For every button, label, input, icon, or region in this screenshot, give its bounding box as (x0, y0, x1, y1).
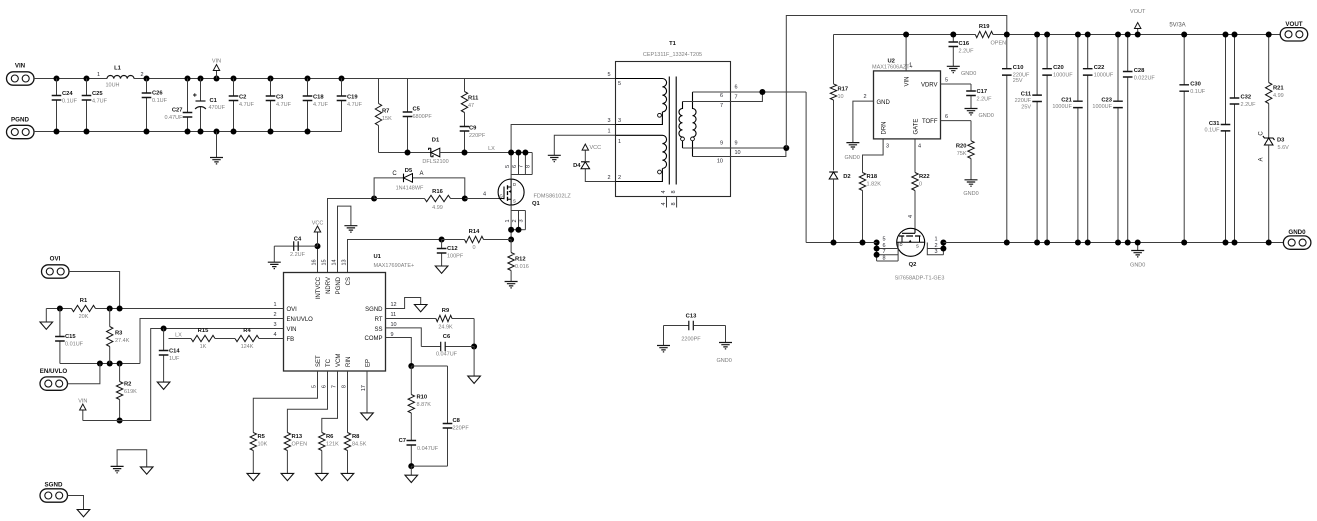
capacitor C27 (164, 79, 192, 132)
resistor R1 (72, 298, 96, 320)
svg-text:S: S (916, 244, 919, 249)
junction (214, 129, 220, 135)
svg-text:100PF: 100PF (447, 254, 464, 260)
svg-text:13: 13 (341, 259, 347, 265)
transistor Q2 (895, 228, 945, 281)
svg-text:7: 7 (883, 249, 886, 255)
svg-text:C20: C20 (1053, 65, 1064, 71)
svg-text:VCC: VCC (312, 221, 324, 227)
svg-text:D: D (513, 182, 516, 187)
svg-text:15: 15 (321, 259, 327, 265)
svg-text:C25: C25 (92, 91, 103, 97)
svg-text:5: 5 (311, 385, 317, 388)
svg-text:6: 6 (720, 93, 723, 99)
svg-text:84.5K: 84.5K (352, 442, 367, 448)
junction (508, 227, 514, 233)
junction (516, 150, 522, 156)
svg-text:1.82K: 1.82K (867, 182, 882, 188)
resistor R15 (191, 328, 215, 350)
svg-text:2.2UF: 2.2UF (1241, 102, 1257, 108)
svg-text:R4: R4 (243, 328, 251, 334)
wire drain rail (806, 242, 877, 244)
svg-text:D2: D2 (843, 174, 850, 180)
svg-text:5: 5 (607, 72, 610, 78)
junction (1181, 240, 1187, 246)
svg-text:SI7658ADP-T1-GE3: SI7658ADP-T1-GE3 (895, 276, 945, 282)
svg-text:75K: 75K (957, 151, 967, 157)
svg-text:1: 1 (909, 63, 912, 69)
connector VOUT (1280, 21, 1308, 41)
svg-text:D: D (900, 242, 903, 247)
junction (54, 76, 60, 82)
junction (84, 76, 90, 82)
svg-text:COMP: COMP (365, 336, 383, 342)
resistor R12 (508, 240, 529, 282)
resistor R10 (408, 366, 431, 437)
svg-text:8: 8 (883, 255, 886, 261)
svg-text:T1: T1 (669, 41, 677, 47)
svg-text:6: 6 (945, 114, 948, 120)
resistor R4 (235, 328, 259, 350)
svg-text:3: 3 (886, 144, 889, 150)
svg-text:DFLS2100: DFLS2100 (422, 159, 448, 165)
svg-text:1K: 1K (200, 344, 207, 350)
wire (34, 78, 107, 80)
junction (161, 326, 167, 332)
svg-text:D4: D4 (573, 163, 581, 169)
svg-text:1: 1 (935, 237, 938, 243)
ground tie (117, 450, 147, 467)
svg-text:3: 3 (273, 322, 276, 328)
svg-text:5V/3A: 5V/3A (1169, 23, 1185, 29)
junction (874, 240, 880, 246)
junction (1135, 32, 1141, 38)
svg-text:3: 3 (607, 118, 610, 124)
junction (1266, 32, 1272, 38)
svg-text:10: 10 (391, 322, 397, 328)
svg-text:MAX17606AZT+: MAX17606AZT+ (872, 64, 913, 70)
junction (315, 243, 321, 249)
junction (1125, 32, 1131, 38)
svg-text:16: 16 (311, 259, 317, 265)
capacitor C21 (1052, 35, 1082, 243)
svg-text:C13: C13 (686, 314, 697, 320)
svg-text:SS: SS (374, 327, 382, 333)
svg-text:0.047UF: 0.047UF (417, 446, 439, 452)
svg-text:2: 2 (140, 72, 143, 78)
junction (117, 306, 123, 312)
capacitor C11 (1015, 35, 1042, 243)
svg-text:TOFF: TOFF (922, 119, 938, 125)
svg-text:R17: R17 (838, 87, 849, 93)
junction (1044, 32, 1050, 38)
wire to T1 pin 3 (511, 125, 615, 153)
junction (107, 306, 113, 312)
svg-text:2.2UF: 2.2UF (959, 49, 975, 55)
wire Q2 source pins (927, 243, 943, 255)
capacitor C20 (1042, 35, 1073, 243)
svg-text:R10: R10 (417, 395, 428, 401)
svg-text:C11: C11 (1021, 92, 1032, 98)
svg-text:15K: 15K (382, 116, 392, 122)
svg-text:7: 7 (331, 385, 337, 388)
svg-text:VIN: VIN (212, 59, 221, 65)
svg-text:SGND: SGND (45, 482, 63, 489)
svg-text:0.01UF: 0.01UF (65, 342, 84, 348)
svg-text:S: S (513, 199, 516, 204)
junction (439, 237, 445, 243)
svg-text:1000UF: 1000UF (1052, 104, 1072, 110)
svg-text:C15: C15 (65, 334, 76, 340)
svg-text:2: 2 (273, 312, 276, 318)
svg-text:4: 4 (661, 190, 667, 193)
svg-text:0.1UF: 0.1UF (152, 98, 168, 104)
svg-text:VDRV: VDRV (921, 83, 938, 89)
junction (1223, 240, 1229, 246)
svg-text:C24: C24 (62, 91, 73, 97)
svg-text:0.016: 0.016 (515, 264, 529, 270)
wire (134, 78, 616, 80)
svg-text:A: A (419, 171, 423, 177)
junction (1223, 32, 1229, 38)
ground GND0 (725, 326, 727, 343)
svg-text:4: 4 (918, 144, 921, 150)
svg-text:RT: RT (375, 317, 383, 323)
svg-text:VIN: VIN (15, 63, 26, 70)
svg-text:619K: 619K (124, 389, 137, 395)
svg-text:4.7UF: 4.7UF (347, 102, 363, 108)
pin labels 1 2 3 (935, 237, 938, 256)
resistor R7 (375, 79, 392, 153)
junction (1004, 240, 1010, 246)
resistor R21 (1266, 35, 1285, 139)
svg-text:5: 5 (883, 237, 886, 243)
svg-text:10UH: 10UH (105, 83, 119, 89)
svg-text:CS: CS (346, 277, 352, 285)
junction (305, 129, 311, 135)
junction (950, 32, 956, 38)
junction (107, 361, 113, 367)
svg-text:R18: R18 (867, 174, 878, 180)
svg-text:8: 8 (341, 385, 347, 388)
svg-text:10: 10 (838, 94, 844, 100)
capacitor C32 (1230, 35, 1256, 243)
svg-text:25V: 25V (1013, 78, 1023, 84)
capacitor C28 (1123, 35, 1156, 243)
svg-text:R9: R9 (442, 308, 450, 314)
svg-text:FDMS86102LZ: FDMS86102LZ (534, 194, 572, 200)
svg-text:C22: C22 (1094, 65, 1105, 71)
svg-text:470UF: 470UF (209, 105, 226, 111)
svg-text:GND0: GND0 (963, 191, 978, 197)
svg-text:4.7UF: 4.7UF (239, 102, 255, 108)
svg-text:12: 12 (391, 302, 397, 308)
wire CS net (348, 240, 442, 273)
svg-text:C: C (392, 171, 397, 177)
wire drain net (805, 92, 807, 243)
svg-text:PGND: PGND (11, 117, 29, 124)
junction (305, 76, 311, 82)
svg-text:OPEN: OPEN (292, 442, 308, 448)
svg-text:8: 8 (671, 202, 677, 205)
junction (1232, 240, 1238, 246)
svg-text:220UF: 220UF (1015, 98, 1032, 104)
svg-text:1: 1 (273, 302, 276, 308)
svg-text:R16: R16 (432, 189, 443, 195)
power flag VCC (317, 232, 319, 246)
svg-text:1N4148WF: 1N4148WF (396, 186, 424, 192)
wire gate (465, 198, 499, 200)
svg-text:LX: LX (488, 146, 495, 152)
connector VIN (7, 63, 35, 86)
wire GND0 rail (943, 242, 1283, 244)
junction (408, 463, 414, 469)
svg-text:2.2UF: 2.2UF (290, 252, 306, 258)
svg-text:20K: 20K (79, 314, 89, 320)
svg-text:C28: C28 (1134, 68, 1145, 74)
svg-text:7: 7 (735, 95, 738, 101)
junction (874, 252, 880, 258)
capacitor C30 (1179, 35, 1205, 243)
junction (471, 344, 477, 350)
svg-text:A: A (1259, 157, 1265, 161)
svg-text:5: 5 (945, 78, 948, 84)
svg-text:R7: R7 (382, 109, 389, 115)
wire (69, 272, 120, 309)
transistor Q1 (498, 179, 571, 207)
svg-text:D1: D1 (432, 138, 440, 144)
svg-text:LX: LX (175, 333, 182, 339)
svg-text:INTVCC: INTVCC (316, 276, 322, 299)
ground U2 GND (853, 101, 874, 143)
svg-text:MAX17690ATE+: MAX17690ATE+ (374, 263, 415, 269)
svg-text:4: 4 (661, 202, 667, 205)
junction (1034, 240, 1040, 246)
svg-text:C12: C12 (447, 246, 458, 252)
svg-text:C26: C26 (152, 91, 163, 97)
svg-text:C32: C32 (1241, 95, 1252, 101)
capacitor C12 (437, 240, 464, 267)
junction (144, 129, 150, 135)
wire OVI net (46, 308, 71, 310)
svg-text:1UF: 1UF (169, 356, 180, 362)
capacitor C26 (142, 79, 168, 132)
junction (57, 306, 63, 312)
inductor L1 (97, 66, 144, 89)
junction (1075, 32, 1081, 38)
svg-text:GND: GND (877, 100, 891, 106)
capacitor C22 (1083, 35, 1114, 243)
svg-text:U1: U1 (374, 254, 382, 260)
svg-text:C2: C2 (239, 95, 246, 101)
svg-text:1: 1 (618, 139, 621, 145)
svg-text:EP: EP (365, 359, 371, 367)
svg-text:C19: C19 (347, 95, 358, 101)
junction (516, 227, 522, 233)
svg-text:OVI: OVI (287, 307, 298, 313)
svg-text:8: 8 (526, 165, 532, 168)
ground T1 pin1 (554, 135, 615, 155)
connector GND0 (1283, 229, 1311, 249)
svg-text:1: 1 (97, 72, 100, 78)
svg-text:3: 3 (519, 219, 525, 222)
junction (97, 361, 103, 367)
diode D5 (374, 178, 403, 199)
wire COMP net (386, 338, 412, 367)
svg-text:C14: C14 (169, 349, 180, 355)
junction (1044, 240, 1050, 246)
svg-text:C4: C4 (294, 237, 302, 243)
junction (54, 129, 60, 135)
junction (185, 129, 191, 135)
svg-text:2: 2 (618, 175, 621, 181)
svg-text:6800PF: 6800PF (413, 114, 433, 120)
wire pin10 (693, 148, 786, 157)
svg-text:C1: C1 (210, 98, 218, 104)
junction (462, 150, 468, 156)
junction (874, 246, 880, 252)
svg-text:220PF: 220PF (469, 133, 486, 139)
svg-text:GND0: GND0 (979, 113, 994, 119)
wire NDRV net (328, 199, 375, 273)
svg-text:R1: R1 (80, 298, 88, 304)
wire (60, 363, 140, 365)
svg-text:4.7UF: 4.7UF (313, 102, 329, 108)
svg-text:6: 6 (512, 165, 518, 168)
svg-text:25V: 25V (1021, 105, 1031, 111)
svg-text:GND0: GND0 (845, 155, 860, 161)
junction (940, 240, 946, 246)
svg-text:C5: C5 (413, 107, 421, 113)
junction (198, 76, 204, 82)
resistor R9 (386, 308, 475, 331)
pin labels 5 6 7 8 (505, 165, 532, 168)
junction (339, 76, 345, 82)
resistor R2 (116, 364, 137, 421)
wire Q1 drain pins (510, 153, 512, 180)
ground (410, 466, 412, 475)
svg-text:R11: R11 (468, 96, 479, 102)
svg-text:R14: R14 (469, 229, 480, 235)
svg-text:14: 14 (331, 259, 337, 265)
svg-text:R13: R13 (292, 434, 303, 440)
svg-text:R8: R8 (352, 434, 360, 440)
diode D4 (585, 169, 615, 182)
ground PGND pin (338, 206, 351, 272)
svg-text:C10: C10 (1013, 65, 1024, 71)
ground (505, 282, 518, 288)
svg-text:VCM: VCM (336, 354, 342, 367)
capacitor C19 (337, 79, 363, 132)
svg-text:6: 6 (883, 243, 886, 249)
diode D2 (829, 172, 850, 180)
resistor R3 (107, 309, 130, 364)
svg-text:1000UF: 1000UF (1053, 73, 1073, 79)
svg-text:VIN: VIN (287, 327, 297, 333)
svg-text:17: 17 (361, 385, 367, 391)
svg-text:220PF: 220PF (453, 426, 470, 432)
op-amp U1 (273, 254, 414, 391)
svg-text:10: 10 (717, 159, 723, 165)
svg-text:VIN: VIN (904, 77, 910, 87)
svg-text:PGND: PGND (336, 276, 342, 294)
svg-text:GND0: GND0 (1130, 263, 1145, 269)
svg-text:0: 0 (919, 182, 922, 188)
svg-text:GATE: GATE (913, 119, 919, 135)
connector EN/UVLO (40, 368, 68, 390)
svg-text:R5: R5 (258, 434, 266, 440)
junction (1266, 240, 1272, 246)
wire (440, 152, 532, 154)
wire VIN net (83, 329, 284, 421)
junction (1115, 240, 1121, 246)
wire PGND rail (34, 131, 342, 133)
svg-text:R20: R20 (956, 144, 967, 150)
connector PGND (7, 117, 35, 139)
svg-text:124K: 124K (241, 344, 254, 350)
svg-text:0.047UF: 0.047UF (436, 352, 458, 358)
svg-text:FB: FB (287, 337, 295, 343)
power flag VIN (82, 410, 84, 421)
resistor R17 (830, 35, 848, 171)
svg-text:VIN: VIN (78, 399, 87, 405)
svg-text:2.2UF: 2.2UF (977, 97, 993, 103)
svg-text:C27: C27 (172, 108, 183, 114)
svg-text:3: 3 (618, 118, 621, 124)
junction (903, 32, 909, 38)
svg-text:EN/UVLO: EN/UVLO (287, 317, 314, 323)
junction (1034, 32, 1040, 38)
junction (831, 240, 837, 246)
svg-text:4.99: 4.99 (432, 205, 443, 211)
svg-text:4: 4 (483, 192, 486, 198)
junction (185, 76, 191, 82)
svg-text:5: 5 (618, 81, 621, 87)
svg-text:2: 2 (607, 175, 610, 181)
svg-text:4: 4 (908, 215, 914, 218)
svg-text:24.9K: 24.9K (438, 325, 453, 331)
junction (268, 76, 274, 82)
svg-text:C9: C9 (469, 126, 477, 132)
svg-text:C8: C8 (453, 418, 461, 424)
svg-text:11: 11 (391, 312, 397, 318)
power flag VIN (212, 59, 221, 79)
capacitor C13 (664, 325, 689, 327)
junction (1232, 32, 1238, 38)
svg-text:0.1UF: 0.1UF (1190, 89, 1206, 95)
svg-text:TC: TC (326, 358, 332, 367)
resistor R11 (461, 79, 479, 127)
junction (940, 246, 946, 252)
junction (405, 150, 411, 156)
svg-text:GND0: GND0 (717, 358, 732, 364)
svg-text:3: 3 (935, 249, 938, 255)
svg-text:5: 5 (505, 165, 511, 168)
capacitor C7 (399, 437, 417, 467)
capacitor C10 (1002, 35, 1030, 243)
resistor R5 (253, 371, 317, 432)
svg-text:9: 9 (720, 141, 723, 147)
wire VOUT rail (993, 34, 1280, 36)
junction (860, 240, 866, 246)
svg-text:R3: R3 (115, 331, 123, 337)
svg-text:OVI: OVI (50, 256, 61, 263)
svg-text:47: 47 (468, 103, 474, 109)
svg-text:CEP1311F_13324-T205: CEP1311F_13324-T205 (643, 52, 702, 58)
svg-text:GND0: GND0 (961, 71, 976, 77)
svg-text:1000UF: 1000UF (1092, 104, 1112, 110)
junction (198, 129, 204, 135)
